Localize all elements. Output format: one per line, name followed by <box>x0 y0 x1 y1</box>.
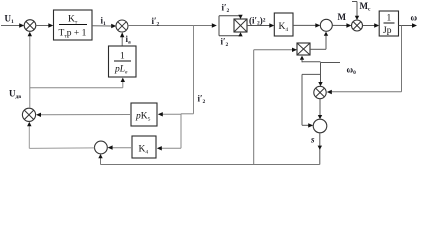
svg-text:Jp: Jp <box>383 26 392 36</box>
wire S5 to S6 <box>318 99 322 119</box>
svg-text:Uдв: Uдв <box>9 89 21 101</box>
wire M2 output to S3 <box>310 32 328 50</box>
wire s bottom run <box>101 164 320 166</box>
wire <box>293 23 320 27</box>
wire <box>92 24 116 28</box>
wire Uab branch to 1/pL <box>30 78 125 88</box>
wire <box>399 23 418 27</box>
wire <box>363 23 380 27</box>
wire omega feedback <box>327 26 402 95</box>
block pK5 <box>131 103 157 126</box>
svg-text:i1: i1 <box>101 16 107 28</box>
wire <box>128 23 217 27</box>
wire S7 output to S8 <box>27 122 94 149</box>
block K4 <box>274 13 293 36</box>
wire i'2 to pK5 <box>158 112 194 116</box>
wire squarer split <box>219 15 243 37</box>
wire <box>1 23 24 27</box>
wire i'2 to K4 lower <box>157 114 181 151</box>
summing junction S1 <box>24 20 36 32</box>
wire omega0 input <box>318 63 340 87</box>
wire Mc input <box>352 2 359 21</box>
summing junction S8 <box>22 108 35 121</box>
wire <box>36 23 54 27</box>
wire s output down <box>318 133 322 165</box>
svg-text:ω0: ω0 <box>347 65 357 77</box>
multiplier M1 <box>234 19 247 32</box>
summing junction S2 <box>116 20 128 32</box>
wire omega0 to junction S6 <box>302 74 321 127</box>
wire omega0 to multiplier M2 <box>300 56 321 63</box>
wire K4 output to S7 <box>108 145 132 149</box>
svg-text:U1: U1 <box>5 14 15 26</box>
summing junction S5 <box>314 86 326 98</box>
block 1/pL <box>109 46 137 77</box>
svg-text:s: s <box>310 135 315 145</box>
wire <box>247 23 274 27</box>
svg-text:1: 1 <box>120 52 125 62</box>
wire <box>332 23 351 27</box>
wire Uab up to S1 <box>28 32 32 108</box>
wire s up to M2 left <box>254 48 297 165</box>
svg-text:i′2: i′2 <box>152 16 160 28</box>
svg-text:iа: iа <box>126 34 132 46</box>
summing junction S4 <box>352 20 363 31</box>
wire i'2 branch down <box>193 26 195 114</box>
svg-text:Tтp + 1: Tтp + 1 <box>59 29 87 40</box>
wire s up to S7 <box>98 154 102 165</box>
svg-text:i′2: i′2 <box>198 94 206 106</box>
svg-text:1: 1 <box>387 14 392 24</box>
block K/(Tp+1) <box>54 10 93 40</box>
summing junction S6 <box>313 119 327 133</box>
svg-text:i′2: i′2 <box>222 3 230 15</box>
svg-text:Mс: Mс <box>360 1 372 13</box>
svg-text:ω: ω <box>411 13 418 23</box>
block K4 lower <box>132 136 156 158</box>
svg-text:M: M <box>338 12 347 22</box>
wire pK5 output to S8 <box>36 113 131 117</box>
multiplier M2 <box>297 43 310 55</box>
block 1/Jp <box>379 11 398 36</box>
summing junction S3 <box>320 19 332 31</box>
summing junction S7 <box>95 141 108 154</box>
wire <box>120 32 124 45</box>
svg-text:i′2: i′2 <box>221 37 229 49</box>
